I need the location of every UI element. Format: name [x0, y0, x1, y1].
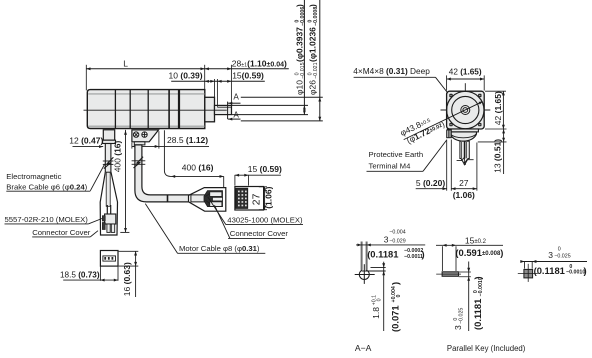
- svg-text:A−A: A−A: [355, 343, 372, 353]
- label connector cover 2 leader: [215, 205, 230, 238]
- svg-text:1.8: 1.8: [371, 307, 381, 319]
- svg-text:13 (0.51): 13 (0.51): [492, 139, 502, 173]
- svg-text:−0.0010: −0.0010: [566, 270, 585, 276]
- dimension 42 top ext left: [446, 75, 448, 90]
- flange square: [447, 91, 485, 129]
- rear cable right: [465, 141, 469, 158]
- brake connector wires: [106, 205, 108, 214]
- phi43.8 leader line: [404, 102, 483, 140]
- svg-text:400 (16): 400 (16): [113, 140, 123, 172]
- shaft boss phi26: [205, 97, 215, 122]
- dimension 0.071 rotated text: [390, 282, 402, 332]
- brake connector latch top: [102, 216, 105, 221]
- svg-text:(1.06): (1.06): [264, 186, 274, 208]
- svg-text:L: L: [123, 58, 128, 68]
- brake cable inside cover: [106, 172, 110, 206]
- dimension 42 right ext top: [485, 90, 506, 92]
- key end 3 ext left: [524, 262, 526, 269]
- svg-text:(0.1181: (0.1181: [367, 248, 398, 259]
- extension line phi10 bottom: [232, 114, 309, 116]
- svg-text:5 (0.20): 5 (0.20): [416, 178, 445, 188]
- rear cable break: [461, 158, 468, 165]
- dimension 12 line: [73, 146, 104, 148]
- motor cable: [135, 145, 191, 202]
- dimension 400 motor extension: [164, 130, 223, 176]
- shaft keyway line: [217, 106, 231, 108]
- dimension 1.8 rotated text: [371, 295, 382, 319]
- brake drum: [450, 132, 476, 141]
- svg-text:(1.06): (1.06): [453, 190, 475, 200]
- flange corner screw bottom-right: [478, 123, 481, 126]
- dimension phi26 rotated text: [307, 4, 318, 95]
- flange corner screw top-left: [449, 94, 452, 97]
- connector 5557 front pins: [104, 257, 106, 260]
- section A-A keyway bottom line: [362, 270, 386, 272]
- extension line block right: [158, 131, 160, 148]
- dimension 400 brake rotated text: [113, 140, 123, 172]
- dimension 3 A-A line: [356, 244, 425, 246]
- svg-text:+0.004: +0.004: [391, 286, 397, 302]
- screw symbol 2: [142, 132, 147, 137]
- svg-text:Motor Cable φ8 (φ0.31): Motor Cable φ8 (φ0.31): [179, 244, 260, 253]
- dimension 27 flange line: [451, 188, 477, 190]
- svg-text:φ26: φ26: [307, 80, 317, 95]
- flange corner screw bottom-left: [449, 123, 452, 126]
- dimension 42 right line: [502, 91, 504, 129]
- dimension 13 ext line: [478, 141, 507, 143]
- motor connector cable end: [191, 195, 206, 202]
- dimension 15 connector line: [235, 174, 281, 176]
- dimension 0.1181 key rotated text: [472, 276, 484, 330]
- dimension 27 connector line: [264, 187, 266, 210]
- svg-text:−0.0006: −0.0006: [300, 7, 306, 26]
- svg-text:Protective Earth: Protective Earth: [369, 150, 424, 159]
- motor connector wire lines: [206, 194, 210, 197]
- dimension 13 rotated text: [492, 139, 502, 173]
- section cut line A-A: [227, 102, 229, 120]
- svg-text:A: A: [233, 93, 239, 102]
- svg-text:Connector Cover: Connector Cover: [230, 229, 289, 238]
- key end view vertical centerline: [527, 264, 529, 282]
- flange inner circle: [452, 96, 479, 123]
- brake drum inner arc: [450, 134, 476, 138]
- dimension phi10 rotated text: [294, 4, 305, 95]
- dimension phi26 line: [319, 0, 321, 121]
- svg-text:(φ1.0236: (φ1.0236: [307, 27, 317, 62]
- key end view horizontal centerline: [518, 273, 538, 275]
- dimension 27 connector ext top: [259, 186, 267, 188]
- motor connector pin 2: [213, 197, 223, 201]
- motor side view centerline: [84, 109, 227, 111]
- flange shaft circle: [461, 106, 470, 115]
- key side view centerline: [436, 273, 461, 275]
- svg-text:(0.1181: (0.1181: [472, 299, 483, 330]
- key 15 ext right: [455, 246, 457, 271]
- label protective earth leader: [423, 140, 446, 171]
- extension line phi26 end: [214, 79, 216, 97]
- dimension 42 right ext bottom: [485, 128, 507, 130]
- svg-text:400 (16): 400 (16): [182, 163, 214, 173]
- dimension 28 line: [205, 68, 289, 70]
- label motor cable underline: [177, 252, 265, 254]
- brake connector cover: [100, 172, 117, 235]
- svg-text:): ): [472, 276, 483, 279]
- flange corner screw top-right: [478, 94, 481, 97]
- svg-text:0: 0: [377, 298, 383, 301]
- brake connector housing: [105, 214, 116, 224]
- motor body panel line 1: [114, 90, 116, 129]
- dimension 18.5 ext left: [99, 266, 101, 281]
- extension line phi26 top: [241, 96, 323, 98]
- motor cable junction mark: [167, 195, 169, 202]
- connector 5557 front view body: [100, 251, 118, 267]
- key 3 ext bottom: [459, 276, 471, 278]
- svg-text:0: 0: [558, 246, 561, 252]
- phi43.8 rotated label: [398, 110, 446, 147]
- svg-text:−0.0011: −0.0011: [404, 254, 423, 260]
- svg-text:): ): [307, 4, 317, 7]
- terminal block: [132, 130, 159, 142]
- svg-text:4×M4×8 (0.31) Deep: 4×M4×8 (0.31) Deep: [353, 66, 430, 76]
- dimension 16 ext top: [119, 250, 139, 252]
- dimension 400 brake line: [125, 130, 127, 232]
- extension line body left: [85, 65, 87, 91]
- motor body panel line 4: [168, 90, 170, 129]
- extension line block left: [131, 143, 133, 149]
- label connector cover 1 leader: [90, 231, 98, 237]
- motor body top shading line: [88, 93, 204, 95]
- motor body: [87, 90, 205, 129]
- motor body panel line 3: [147, 90, 149, 129]
- dimension 16 line: [135, 251, 137, 297]
- key end view square: [524, 269, 533, 278]
- dimension 10-15 line: [171, 80, 265, 82]
- dimension 1.8 ext top: [371, 267, 386, 269]
- dimension 15 key line: [436, 244, 503, 246]
- rear cable inner lines: [461, 142, 463, 158]
- label brake cable leader: [90, 164, 104, 191]
- dimension 5 ext left: [446, 140, 448, 191]
- svg-text:): ): [294, 4, 304, 7]
- svg-text:42 (1.65): 42 (1.65): [493, 91, 503, 125]
- extension line phi10 top: [232, 104, 309, 106]
- motor connector pin 3: [210, 202, 222, 207]
- label 5557 underline: [5, 223, 89, 225]
- svg-text:43025-1000 (MOLEX): 43025-1000 (MOLEX): [227, 215, 303, 224]
- dimension 3 key end line: [521, 261, 588, 263]
- motor body panel line 2: [129, 90, 131, 129]
- dimension 1.8 line: [383, 262, 385, 331]
- dimension 3 key rotated text: [453, 308, 464, 330]
- motor connector cover: [189, 188, 226, 212]
- dimension L line: [86, 68, 204, 70]
- key 15 ext left: [441, 246, 443, 271]
- extension line body right: [204, 65, 206, 90]
- svg-text:Electromagnetic: Electromagnetic: [6, 172, 61, 181]
- svg-text:φ10: φ10: [294, 80, 304, 95]
- flange lip: [448, 129, 479, 132]
- svg-text:16 (0.63): 16 (0.63): [122, 262, 132, 296]
- dimension 5 line: [416, 188, 447, 190]
- key 3 ext top: [459, 271, 471, 273]
- section arrow bottom: [228, 118, 241, 120]
- svg-text:): ): [390, 282, 401, 285]
- svg-text:28±1(1.10±0.04): 28±1(1.10±0.04): [232, 59, 287, 69]
- section arrow top: [228, 102, 241, 104]
- label 5557 leader: [88, 219, 102, 224]
- dimension 3 key line: [468, 262, 470, 332]
- svg-text:15(0.59): 15(0.59): [232, 71, 264, 81]
- connector 43025 front view face: [236, 188, 248, 208]
- svg-text:42 (1.65): 42 (1.65): [449, 68, 482, 77]
- rear cable left: [460, 141, 464, 158]
- svg-text:15 (0.59): 15 (0.59): [248, 164, 282, 174]
- dimension 27 connector rotated text: [252, 193, 263, 205]
- svg-text:−0.025: −0.025: [554, 254, 570, 260]
- dimension 42 top ext right: [483, 75, 485, 90]
- key side view bar: [442, 272, 459, 277]
- label protective earth underline: [367, 170, 424, 172]
- label 4xM4 underline: [354, 76, 436, 78]
- dimension 15 connector ext left: [234, 175, 236, 186]
- shaft phi10: [215, 105, 232, 114]
- dimension 15 connector ext right: [248, 175, 250, 186]
- svg-text:12 (0.47): 12 (0.47): [69, 136, 103, 146]
- motor connector pin 1: [210, 192, 222, 197]
- svg-text:(0.1181: (0.1181: [534, 265, 565, 276]
- svg-text:(0.591±0.008): (0.591±0.008): [455, 247, 503, 258]
- section A-A vertical centerline: [363, 264, 365, 284]
- section A-A shaft circle: [359, 270, 369, 280]
- svg-text:−0.021: −0.021: [313, 62, 319, 78]
- svg-text:0: 0: [396, 295, 402, 298]
- svg-text:Connector Cover: Connector Cover: [32, 228, 91, 237]
- flange view vertical centerline: [464, 83, 466, 165]
- svg-text:3: 3: [453, 325, 463, 330]
- extension line keyway start: [216, 79, 218, 107]
- connector 5557 front view band: [103, 256, 116, 261]
- motor cable break symbol: [132, 160, 146, 162]
- dimension 28.5 line: [132, 145, 209, 147]
- brake cable break symbol: [103, 160, 114, 162]
- key end 3 ext right: [531, 262, 533, 269]
- svg-text:15±0.2: 15±0.2: [465, 236, 487, 246]
- dimension 16 rotated text: [122, 262, 132, 296]
- motor connector housing: [204, 191, 223, 207]
- dimension 18.5 line: [63, 279, 118, 281]
- dimension 16 ext bottom: [119, 265, 139, 267]
- dimension 18.5 ext right: [117, 266, 119, 281]
- section A-A keyway ext bars: [361, 242, 363, 270]
- label 43025 underline: [226, 224, 303, 226]
- motor flange joint line: [178, 90, 180, 129]
- brake connector latch bottom: [102, 223, 105, 230]
- svg-text:−0.004: −0.004: [389, 229, 405, 235]
- extension line shaft tip: [230, 65, 232, 115]
- dimension 42 right rotated text: [493, 91, 503, 125]
- svg-text:3: 3: [384, 235, 389, 245]
- label motor cable leader: [145, 204, 177, 254]
- dimension 27 connector rotated text inches: [264, 186, 274, 208]
- label connector cover 1 underline: [32, 236, 90, 238]
- svg-text:(φ0.3937: (φ0.3937: [294, 27, 304, 62]
- svg-text:5557-02R-210 (MOLEX): 5557-02R-210 (MOLEX): [5, 215, 89, 224]
- flange view horizontal centerline: [441, 109, 491, 111]
- svg-text:28.5 (1.12): 28.5 (1.12): [167, 135, 208, 145]
- svg-text:−0.015: −0.015: [300, 62, 306, 78]
- extension line motor connector end: [223, 176, 225, 210]
- label connector cover 2 underline: [228, 237, 285, 239]
- svg-text:−0.0002: −0.0002: [404, 248, 423, 254]
- svg-text:27: 27: [252, 193, 263, 205]
- screw symbol 1: [133, 132, 138, 137]
- motor cable collar: [134, 142, 145, 145]
- earth terminal screw: [447, 130, 452, 138]
- dimension 27 connector ext bottom: [259, 209, 267, 211]
- svg-text:−0.0008: −0.0008: [313, 7, 319, 26]
- brake connector pin right: [111, 224, 114, 232]
- motor body bottom shading line: [88, 125, 204, 127]
- svg-text:Parallel Key (Included): Parallel Key (Included): [447, 344, 526, 353]
- section A-A horizontal centerline: [355, 274, 375, 276]
- svg-text:3: 3: [548, 250, 553, 260]
- brake connector pin left: [107, 224, 110, 232]
- dimension phi10 line: [303, 0, 305, 115]
- dimension 13 line: [503, 129, 505, 174]
- flange pilot circle: [447, 91, 484, 128]
- connector 43025 pin grid: [238, 191, 240, 193]
- svg-text:27: 27: [459, 178, 469, 188]
- label 4xM4 leader: [436, 77, 448, 93]
- svg-text:): ): [584, 265, 587, 276]
- svg-text:Brake Cable φ6 (φ0.24): Brake Cable φ6 (φ0.24): [6, 183, 87, 192]
- connector 43025 front view body: [235, 187, 264, 211]
- svg-text:(0.071: (0.071: [390, 305, 401, 332]
- label brake cable underline: [6, 190, 90, 192]
- svg-text:Terminal M4: Terminal M4: [369, 162, 412, 171]
- flange center hole circle: [463, 108, 468, 113]
- extension line phi26 bottom: [241, 120, 323, 122]
- svg-text:−0.025: −0.025: [458, 308, 464, 324]
- extension line brake connector bottom: [120, 231, 129, 233]
- label 43025 leader: [208, 197, 226, 225]
- dimension 5 ext right: [450, 140, 452, 191]
- brake cable collar: [103, 140, 116, 143]
- svg-text:10 (0.39): 10 (0.39): [169, 71, 203, 81]
- dimension 27 flange ext right: [476, 143, 478, 191]
- svg-text:18.5 (0.73): 18.5 (0.73): [60, 271, 100, 280]
- dimension 42 top line: [447, 78, 485, 80]
- brake cable upper section: [105, 144, 111, 173]
- section A-A keyway slot: [361, 266, 367, 271]
- brake cable gland: [103, 130, 114, 140]
- svg-text:): ): [422, 248, 425, 259]
- svg-text:−0.029: −0.029: [389, 238, 405, 244]
